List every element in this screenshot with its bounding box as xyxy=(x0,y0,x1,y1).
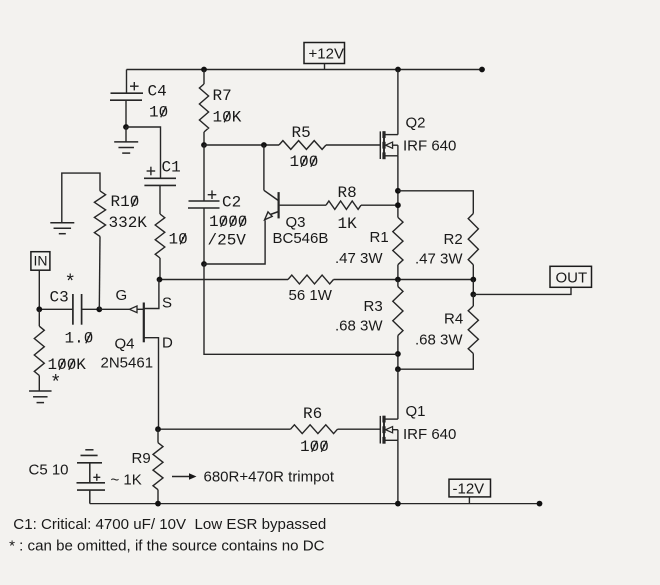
resistor R5 xyxy=(279,141,326,150)
svg-text:*: * xyxy=(67,271,75,292)
svg-text:R6: R6 xyxy=(303,405,322,423)
wire C3 to gate node xyxy=(82,308,100,310)
svg-text:1K: 1K xyxy=(338,215,358,233)
wire gate node to Q4 arrow xyxy=(99,308,129,310)
resistor R9 xyxy=(157,429,159,443)
svg-text:* : can be omitted, if the sou: * : can be omitted, if the source contai… xyxy=(9,538,325,555)
wire source-node rail 56 1W xyxy=(160,279,289,281)
capacitor C5 xyxy=(85,449,93,451)
wire gate line to R6 xyxy=(158,428,291,430)
wire +12V box stem xyxy=(324,64,326,70)
svg-text:.47 3W: .47 3W xyxy=(415,251,463,268)
resistor R8 xyxy=(326,201,361,209)
node Q3 collector tap xyxy=(261,142,267,148)
wire C2 node down and right to R3 bottom node xyxy=(204,264,398,354)
resistor 56 1W xyxy=(288,275,334,284)
resistor R3 xyxy=(397,280,399,287)
node R3 / bias line xyxy=(395,351,401,357)
q1 channel bar xyxy=(383,416,385,444)
q1 drain stub xyxy=(384,418,398,420)
wire Q3 emitter down and left to C2 node xyxy=(204,220,265,264)
svg-text:D: D xyxy=(162,335,173,352)
wire Q2 source down xyxy=(397,156,399,218)
svg-text:-12V: -12V xyxy=(453,481,485,498)
svg-text:1.0: 1.0 xyxy=(65,330,94,348)
wire Q3 collector lead xyxy=(263,145,265,190)
capacitor C3 xyxy=(72,294,74,325)
ground below C4 xyxy=(125,127,127,142)
capacitor C1 xyxy=(144,177,176,179)
node top rail right end xyxy=(479,67,485,73)
q1 source stub xyxy=(384,439,398,441)
node Q2 source / R2 branch xyxy=(395,188,401,194)
wire R7 node down to C2 xyxy=(203,145,205,201)
node 56 line / R1 bottom xyxy=(395,277,401,283)
svg-text:S: S xyxy=(162,295,172,312)
svg-text:.68 3W: .68 3W xyxy=(415,332,463,349)
svg-text:*: * xyxy=(52,372,60,393)
wire R2 bottom to output node xyxy=(472,280,474,295)
node IN / C3 / 100K xyxy=(36,306,42,312)
svg-text:R2: R2 xyxy=(444,231,463,248)
wire C1 to resistor 10 xyxy=(159,185,161,214)
wire R5 to Q2 gate xyxy=(326,144,380,146)
q1 body stub and arrow xyxy=(392,429,398,431)
svg-text:680R+470R trimpot: 680R+470R trimpot xyxy=(204,469,335,486)
svg-text:56 1W: 56 1W xyxy=(289,287,333,304)
svg-text:C1: C1 xyxy=(162,159,181,177)
wire IN box down xyxy=(38,270,40,309)
node output xyxy=(470,292,476,298)
wire C4 node to C1 xyxy=(126,127,161,178)
Q4 drain lead xyxy=(144,338,159,430)
svg-text:~ 1K: ~ 1K xyxy=(111,472,142,489)
svg-text:Q1: Q1 xyxy=(406,403,426,420)
wire C2 to lower node xyxy=(203,208,205,264)
node C3 / R10 / gate xyxy=(96,306,102,312)
wire output to OUT box xyxy=(473,287,571,294)
svg-text:10: 10 xyxy=(149,104,168,122)
wire Q2 drain to top rail xyxy=(397,70,399,135)
node R3-R4 bottom / Q1 drain xyxy=(395,366,401,372)
svg-text:IRF 640: IRF 640 xyxy=(403,138,456,155)
svg-text:2N5461: 2N5461 xyxy=(101,355,154,372)
node negative rail right end xyxy=(537,501,543,507)
svg-text:C1: Critical: 4700 uF/ 10V Lo: C1: Critical: 4700 uF/ 10V Low ESR bypas… xyxy=(13,516,326,533)
q2 source stub xyxy=(384,155,398,157)
transistor Q4 2N5461 gate arrow xyxy=(129,306,137,313)
q2 drain stub xyxy=(384,134,398,136)
wire R8 to Q2 source node xyxy=(361,204,398,206)
+12V supply label box xyxy=(304,43,345,64)
resistor R7 xyxy=(203,70,205,85)
svg-text:C5 10: C5 10 xyxy=(29,462,69,479)
resistor 10 (source resistor) xyxy=(155,214,165,258)
q2 channel bar xyxy=(383,131,385,159)
svg-text:R3: R3 xyxy=(364,298,383,315)
-12V supply label box xyxy=(449,479,491,497)
wire IN node to C3 xyxy=(39,308,72,310)
q1 gate bar xyxy=(379,416,381,444)
resistor R1 xyxy=(393,217,403,264)
capacitor C4 xyxy=(111,92,144,94)
svg-text:Q3: Q3 xyxy=(286,214,306,231)
svg-text:R7: R7 xyxy=(213,87,232,105)
wire source node to R2 top xyxy=(398,191,473,214)
wire R6 to Q1 gate xyxy=(338,428,381,430)
trimpot note arrow xyxy=(172,476,191,478)
transistor Q3 xyxy=(264,190,278,200)
wire Q3 base to R8 xyxy=(280,204,326,206)
resistor R4 xyxy=(472,294,474,306)
wire C4 to ground node xyxy=(125,100,127,127)
svg-text:C2: C2 xyxy=(222,194,241,212)
node Q4 source junction xyxy=(157,277,163,283)
svg-text:Q4: Q4 xyxy=(115,336,135,353)
resistor R6 xyxy=(291,425,338,434)
svg-text:.47 3W: .47 3W xyxy=(335,250,383,267)
Q4 source lead xyxy=(144,280,159,309)
resistor R2 xyxy=(468,214,478,265)
svg-text:G: G xyxy=(116,287,128,304)
node C2 bottom / Q3 emitter xyxy=(201,261,207,267)
ground left of R10 xyxy=(50,222,74,224)
Q4 channel bar xyxy=(143,303,145,343)
q2 gate bar xyxy=(379,131,381,159)
wire node to R5 xyxy=(204,144,279,146)
svg-text:IRF 640: IRF 640 xyxy=(403,426,456,443)
q2 body stub and arrow xyxy=(392,144,398,146)
node top rail / R7 xyxy=(201,67,207,73)
OUT label box xyxy=(550,266,592,287)
svg-text:R8: R8 xyxy=(338,184,357,202)
svg-text:/25V: /25V xyxy=(208,232,247,250)
wire -12V box stem xyxy=(468,497,470,504)
wire negative rail xyxy=(90,503,540,505)
node 56 line / R2 bottom xyxy=(470,277,476,283)
svg-text:.68 3W: .68 3W xyxy=(335,318,383,335)
ground below 100K xyxy=(29,390,52,392)
svg-text:R1: R1 xyxy=(370,229,389,246)
wire R4 bottom to R3 bottom xyxy=(398,354,473,370)
wire top rail to C4 xyxy=(126,70,128,94)
svg-text:10: 10 xyxy=(169,231,188,249)
wire resistor 10 to source node xyxy=(159,258,161,280)
svg-text:IN: IN xyxy=(34,253,48,269)
wire Q1 drain up to R3/R4 node xyxy=(397,369,399,419)
svg-text:BC546B: BC546B xyxy=(273,230,329,247)
capacitor C2 xyxy=(189,200,220,202)
node R8 / R1 top xyxy=(395,202,401,208)
node negative rail / R9 xyxy=(155,501,161,507)
svg-text:C4: C4 xyxy=(148,83,167,101)
node R7/R5/C2 junction xyxy=(201,142,207,148)
IN label box xyxy=(31,252,50,271)
node negative rail / Q1 source xyxy=(395,501,401,507)
svg-text:R9: R9 xyxy=(132,450,151,467)
wire Q1 source to negative rail xyxy=(397,440,399,503)
resistor 100K xyxy=(38,309,40,326)
svg-text:R10: R10 xyxy=(111,193,140,211)
svg-text:+12V: +12V xyxy=(309,46,344,63)
svg-text:332K: 332K xyxy=(109,214,148,232)
wire R10 top to ground xyxy=(62,173,100,223)
svg-text:Q2: Q2 xyxy=(406,115,426,132)
wire R10 bottom to gate node xyxy=(98,236,101,309)
resistor R10 xyxy=(94,191,105,237)
svg-text:OUT: OUT xyxy=(556,270,588,287)
node C4/C1 junction xyxy=(123,124,129,130)
svg-text:R5: R5 xyxy=(292,124,311,142)
node top rail / Q2 drain xyxy=(395,67,401,73)
wire +12V top rail xyxy=(127,69,483,71)
node R6 / R9 / Q4 drain xyxy=(155,426,161,432)
svg-text:R4: R4 xyxy=(444,311,463,328)
